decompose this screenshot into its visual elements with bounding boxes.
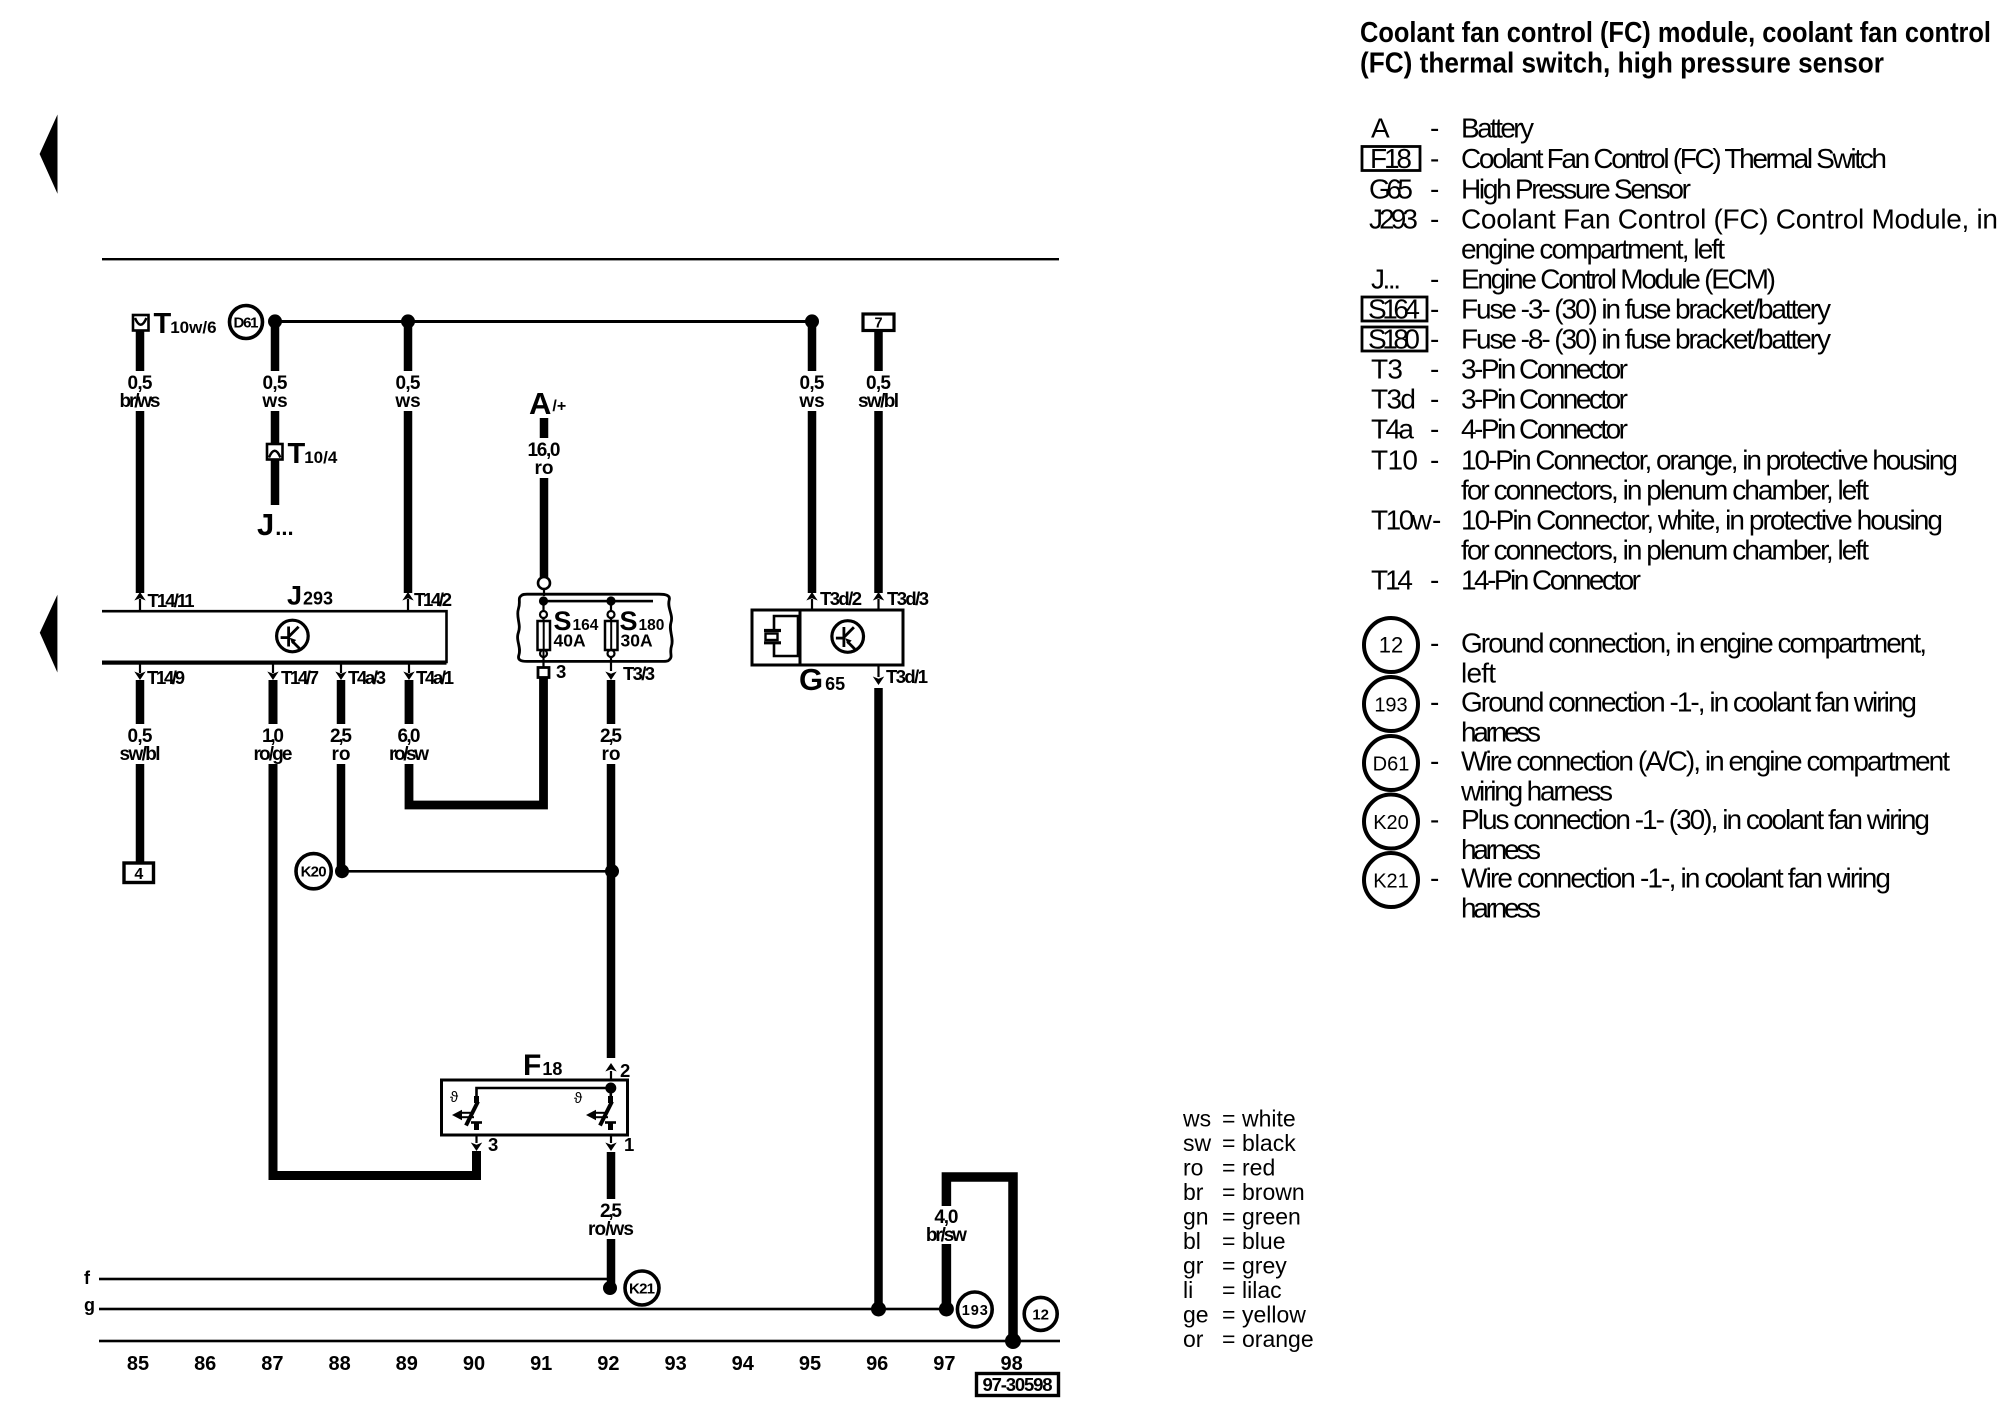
svg-text:bl: bl — [1183, 1228, 1201, 1254]
svg-text:Battery: Battery — [1461, 113, 1534, 144]
svg-text:black: black — [1242, 1130, 1296, 1156]
svg-text:97-30598: 97-30598 — [983, 1374, 1053, 1395]
svg-text:-: - — [1432, 505, 1441, 536]
svg-text:red: red — [1242, 1155, 1275, 1181]
svg-text:white: white — [1241, 1106, 1296, 1132]
svg-text:=: = — [1222, 1106, 1235, 1132]
svg-text:T3: T3 — [1371, 354, 1403, 385]
svg-text:193: 193 — [962, 1303, 988, 1319]
svg-text:=: = — [1222, 1179, 1235, 1205]
svg-text:=: = — [1222, 1204, 1235, 1230]
svg-text:193: 193 — [1374, 695, 1407, 717]
svg-text:ge: ge — [1183, 1302, 1209, 1328]
svg-text:=: = — [1222, 1277, 1235, 1303]
svg-text:=: = — [1222, 1253, 1235, 1279]
svg-text:89: 89 — [396, 1353, 418, 1375]
svg-text:14-Pin Connector: 14-Pin Connector — [1461, 565, 1641, 596]
svg-text:K20: K20 — [1373, 812, 1409, 834]
svg-text:1: 1 — [624, 1134, 634, 1155]
svg-text:harness: harness — [1461, 834, 1541, 865]
svg-text:Wire connection -1-, in coolan: Wire connection -1-, in coolant fan wiri… — [1461, 863, 1891, 894]
svg-text:ws: ws — [798, 391, 824, 412]
svg-text:harness: harness — [1461, 717, 1541, 748]
svg-text:left: left — [1461, 658, 1496, 689]
svg-text:=: = — [1222, 1155, 1235, 1181]
svg-text:ro: ro — [332, 744, 351, 765]
svg-text:br/sw: br/sw — [926, 1225, 967, 1246]
svg-text:Fuse -3- (30) in fuse bracket/: Fuse -3- (30) in fuse bracket/battery — [1461, 294, 1831, 325]
svg-text:T3d/2: T3d/2 — [820, 588, 862, 609]
svg-text:G65: G65 — [1369, 174, 1413, 205]
svg-text:T14/9: T14/9 — [147, 667, 185, 688]
svg-text:87: 87 — [261, 1353, 283, 1375]
svg-text:ro/ge: ro/ge — [254, 744, 293, 765]
svg-text:T4a/1: T4a/1 — [416, 667, 454, 688]
svg-text:90: 90 — [463, 1353, 485, 1375]
svg-text:Ground connection, in engine c: Ground connection, in engine compartment… — [1461, 628, 1927, 659]
svg-text:High Pressure Sensor: High Pressure Sensor — [1461, 174, 1691, 205]
svg-text:Ground connection -1-, in cool: Ground connection -1-, in coolant fan wi… — [1461, 687, 1917, 718]
svg-text:D61: D61 — [234, 315, 259, 332]
svg-text:10-Pin Connector, orange, in p: 10-Pin Connector, orange, in protective … — [1461, 445, 1958, 476]
svg-text:=: = — [1222, 1228, 1235, 1254]
svg-text:Coolant Fan Control (FC) Contr: Coolant Fan Control (FC) Control Module,… — [1461, 204, 1998, 235]
svg-text:gn: gn — [1183, 1204, 1209, 1230]
svg-text:ro: ro — [602, 744, 621, 765]
svg-text:-: - — [1430, 804, 1439, 835]
svg-text:T3d: T3d — [1371, 384, 1416, 415]
svg-text:Coolant Fan Control (FC) Therm: Coolant Fan Control (FC) Thermal Switch — [1461, 143, 1887, 174]
svg-text:=: = — [1222, 1130, 1235, 1156]
svg-text:91: 91 — [530, 1353, 552, 1375]
svg-text:sw/bl: sw/bl — [120, 744, 161, 765]
svg-text:Wire connection (A/C), in engi: Wire connection (A/C), in engine compart… — [1461, 746, 1950, 777]
svg-text:T14: T14 — [1371, 565, 1413, 596]
svg-text:T4a: T4a — [1371, 414, 1414, 445]
svg-text:40A: 40A — [554, 631, 586, 651]
svg-text:ws: ws — [1182, 1106, 1211, 1132]
svg-text:T3d/3: T3d/3 — [887, 588, 929, 609]
svg-text:lilac: lilac — [1242, 1277, 1282, 1303]
svg-text:for connectors, in plenum cham: for connectors, in plenum chamber, left — [1461, 475, 1869, 506]
svg-text:85: 85 — [127, 1353, 149, 1375]
svg-text:30A: 30A — [621, 631, 653, 651]
svg-text:-: - — [1430, 746, 1439, 777]
svg-text:3: 3 — [488, 1134, 498, 1155]
svg-text:for connectors, in plenum cham: for connectors, in plenum chamber, left — [1461, 535, 1869, 566]
svg-text:g: g — [84, 1295, 95, 1315]
svg-text:orange: orange — [1242, 1326, 1314, 1352]
svg-text:green: green — [1242, 1204, 1301, 1230]
svg-text:92: 92 — [597, 1353, 619, 1375]
svg-text:-: - — [1430, 204, 1439, 235]
svg-text:2: 2 — [620, 1060, 630, 1081]
svg-text:T14/11: T14/11 — [148, 590, 195, 611]
svg-text:-: - — [1430, 863, 1439, 894]
svg-text:-: - — [1430, 324, 1439, 355]
svg-text:blue: blue — [1242, 1228, 1285, 1254]
svg-text:94: 94 — [732, 1353, 755, 1375]
svg-text:12: 12 — [1032, 1306, 1049, 1323]
svg-text:engine compartment, left: engine compartment, left — [1461, 234, 1725, 265]
svg-text:T3d/1: T3d/1 — [886, 666, 928, 687]
svg-text:-: - — [1430, 113, 1439, 144]
svg-text:93: 93 — [664, 1353, 686, 1375]
svg-text:D61: D61 — [1373, 754, 1410, 776]
svg-text:3-Pin Connector: 3-Pin Connector — [1461, 354, 1628, 385]
svg-text:(FC) thermal switch, high pres: (FC) thermal switch, high pressure senso… — [1360, 48, 1884, 80]
svg-text:95: 95 — [799, 1353, 821, 1375]
svg-text:-: - — [1430, 687, 1439, 718]
svg-text:-: - — [1430, 565, 1439, 596]
svg-text:f: f — [84, 1268, 91, 1288]
svg-text:=: = — [1222, 1302, 1235, 1328]
svg-text:sw/bl: sw/bl — [858, 391, 899, 412]
svg-text:br: br — [1183, 1179, 1204, 1205]
svg-text:K21: K21 — [1373, 871, 1409, 893]
svg-text:wiring harness: wiring harness — [1460, 776, 1613, 807]
svg-text:Plus connection -1- (30), in c: Plus connection -1- (30), in coolant fan… — [1461, 804, 1930, 835]
svg-text:ro: ro — [535, 458, 554, 479]
svg-text:-: - — [1430, 628, 1439, 659]
svg-text:T14/2: T14/2 — [414, 589, 452, 610]
svg-text:98: 98 — [1000, 1353, 1022, 1375]
svg-text:T4a/3: T4a/3 — [348, 667, 386, 688]
svg-text:Fuse -8- (30) in fuse bracket/: Fuse -8- (30) in fuse bracket/battery — [1461, 324, 1831, 355]
svg-text:T14/7: T14/7 — [281, 667, 319, 688]
svg-text:ϑ: ϑ — [574, 1090, 583, 1107]
svg-text:-: - — [1430, 264, 1439, 295]
svg-text:K20: K20 — [301, 864, 327, 881]
svg-text:96: 96 — [866, 1353, 888, 1375]
svg-text:12: 12 — [1379, 633, 1403, 658]
svg-text:ws: ws — [394, 391, 420, 412]
svg-text:harness: harness — [1461, 893, 1541, 924]
svg-text:=: = — [1222, 1326, 1235, 1352]
svg-text:-: - — [1430, 414, 1439, 445]
svg-text:yellow: yellow — [1242, 1302, 1306, 1328]
svg-text:A: A — [1371, 113, 1390, 144]
svg-text:Coolant fan control (FC) modul: Coolant fan control (FC) module, coolant… — [1360, 17, 1991, 49]
svg-text:ϑ: ϑ — [450, 1089, 459, 1106]
svg-text:brown: brown — [1242, 1179, 1305, 1205]
svg-text:ro/sw: ro/sw — [389, 744, 429, 765]
svg-text:3: 3 — [556, 661, 566, 682]
svg-text:or: or — [1183, 1326, 1204, 1352]
svg-text:grey: grey — [1242, 1253, 1287, 1279]
svg-text:86: 86 — [194, 1353, 216, 1375]
svg-text:3-Pin Connector: 3-Pin Connector — [1461, 384, 1628, 415]
svg-text:T10: T10 — [1371, 445, 1418, 476]
svg-text:4: 4 — [134, 866, 143, 883]
svg-text:-: - — [1430, 354, 1439, 385]
svg-text:li: li — [1183, 1277, 1193, 1303]
svg-text:ws: ws — [261, 391, 287, 412]
svg-text:ro: ro — [1183, 1155, 1203, 1181]
svg-text:-: - — [1430, 143, 1439, 174]
svg-text:7: 7 — [874, 316, 882, 332]
svg-text:ro/ws: ro/ws — [588, 1219, 634, 1240]
svg-text:T10w: T10w — [1371, 505, 1433, 536]
svg-text:88: 88 — [328, 1353, 350, 1375]
svg-text:T3/3: T3/3 — [623, 663, 655, 684]
svg-text:gr: gr — [1183, 1253, 1204, 1279]
svg-text:K21: K21 — [629, 1281, 655, 1298]
svg-text:97: 97 — [933, 1353, 955, 1375]
svg-text:-: - — [1430, 174, 1439, 205]
svg-text:-: - — [1430, 294, 1439, 325]
svg-text:J293: J293 — [1369, 204, 1418, 235]
svg-text:J...: J... — [1371, 264, 1401, 295]
svg-text:br/ws: br/ws — [120, 391, 161, 412]
svg-text:10-Pin Connector, white, in pr: 10-Pin Connector, white, in protective h… — [1461, 505, 1943, 536]
svg-text:-: - — [1430, 384, 1439, 415]
svg-text:sw: sw — [1183, 1130, 1212, 1156]
svg-text:4-Pin Connector: 4-Pin Connector — [1461, 414, 1628, 445]
svg-text:-: - — [1430, 445, 1439, 476]
svg-text:Engine Control Module (ECM): Engine Control Module (ECM) — [1461, 264, 1776, 295]
